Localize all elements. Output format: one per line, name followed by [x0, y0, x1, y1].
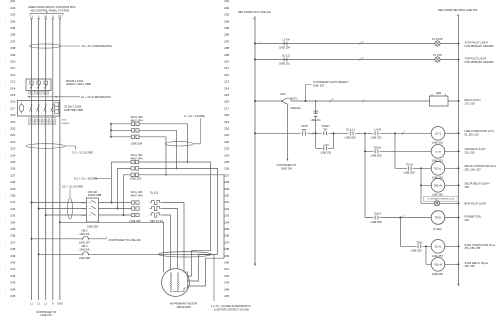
svg-text:232: 232	[10, 207, 15, 211]
svg-text:FOR PRIMARY HEATER: FOR PRIMARY HEATER	[465, 60, 494, 64]
svg-text:LINE 253: LINE 253	[371, 136, 382, 140]
svg-text:216: 216	[10, 100, 15, 104]
svg-text:TO PRIMARY AUTO SELECT: TO PRIMARY AUTO SELECT	[313, 80, 349, 84]
svg-text:221: 221	[224, 133, 229, 137]
pilot lamp PL TOP	[435, 57, 440, 62]
svg-text:BLK: BLK	[51, 123, 55, 125]
transformer cable leader	[193, 118, 200, 144]
svg-text:234: 234	[10, 220, 15, 224]
svg-text:15KW/100P: 15KW/100P	[176, 305, 191, 309]
svg-text:223: 223	[224, 147, 229, 151]
feeder source note	[29, 5, 76, 12]
svg-text:& MOTOR CONTACT GLAND: & MOTOR CONTACT GLAND	[214, 307, 249, 311]
svg-text:TDSL: TDSL	[416, 240, 423, 244]
svg-text:245: 245	[10, 294, 15, 298]
manual branch wire	[287, 105, 289, 159]
fuse F2b	[131, 167, 139, 170]
svg-text:LINE 254: LINE 254	[279, 45, 290, 49]
svg-text:218: 218	[10, 113, 15, 117]
svg-text:MANUAL: MANUAL	[291, 107, 302, 110]
pushbutton START	[324, 131, 327, 135]
rung 11 wire	[426, 263, 459, 265]
svg-text:259: 259	[465, 185, 470, 189]
svg-text:10 SEC: 10 SEC	[433, 227, 442, 231]
svg-text:240: 240	[10, 261, 15, 265]
svg-text:440V 1PH: 440V 1PH	[130, 156, 142, 160]
contact TDSL timed	[418, 244, 421, 248]
coil SQ+H	[431, 258, 445, 272]
tap wire yellow	[39, 208, 131, 210]
svg-text:220: 220	[224, 127, 229, 131]
breaker MCCB1 label	[66, 79, 91, 86]
wire number tick rung4	[402, 132, 404, 135]
svg-text:SC1N+1 100A: SC1N+1 100A	[64, 104, 81, 108]
svg-text:229: 229	[224, 187, 229, 191]
rung 7 wire	[421, 184, 459, 186]
fuse F2a	[131, 160, 139, 163]
svg-text:239: 239	[10, 254, 15, 258]
svg-text:LINE 259: LINE 259	[87, 224, 98, 228]
svg-text:PL TOP: PL TOP	[433, 54, 442, 57]
feeder continuation note	[36, 310, 56, 317]
svg-text:HV-PRIMARY MOTOR: HV-PRIMARY MOTOR	[170, 302, 197, 306]
svg-text:204: 204	[10, 19, 15, 23]
fuse F2c	[131, 173, 139, 176]
svg-text:L1Y/H: L1Y/H	[374, 127, 381, 131]
coil L1Y-H	[431, 145, 445, 159]
svg-text:TD+H: TD+H	[406, 162, 413, 166]
svg-text:MCCB-1 100A: MCCB-1 100A	[66, 79, 84, 83]
contact OL trip	[350, 131, 353, 135]
svg-text:LINE 257: LINE 257	[79, 241, 90, 245]
motor M1 body	[162, 269, 190, 297]
fuse group F3 label	[130, 190, 143, 197]
conductor L3	[45, 20, 47, 301]
node start junction	[315, 132, 317, 134]
svg-text:242: 242	[10, 274, 15, 278]
svg-text:CB-4: CB-4	[82, 244, 88, 248]
fuse group F2 output rails	[139, 162, 224, 286]
svg-text:208: 208	[224, 46, 229, 50]
svg-text:206: 206	[10, 33, 15, 37]
fuse F3a	[132, 201, 140, 204]
svg-text:211: 211	[10, 66, 15, 70]
svg-text:241: 241	[224, 267, 229, 271]
fuse group F2 left wires	[112, 162, 132, 215]
svg-text:SQ+H: SQ+H	[434, 262, 442, 266]
svg-text:244: 244	[224, 287, 229, 291]
svg-text:STAR CONTACTOR SC+L: STAR CONTACTOR SC+L	[465, 243, 496, 247]
svg-text:SC1L 400: SC1L 400	[131, 115, 143, 119]
rung 1 note	[465, 40, 494, 47]
svg-text:LINE 256: LINE 256	[345, 136, 356, 140]
svg-text:209: 209	[10, 53, 15, 57]
rung 7 note	[465, 181, 490, 188]
contact PL-stop circuit	[284, 42, 287, 46]
contactor KM-GR poles	[89, 200, 95, 216]
svg-text:226: 226	[10, 167, 15, 171]
contactor KM1 aux block	[55, 103, 59, 114]
svg-text:LINE 150: LINE 150	[40, 313, 52, 317]
svg-text:DL 250, 219: DL 250, 219	[465, 133, 480, 137]
svg-text:LINE 256: LINE 256	[432, 272, 443, 276]
motor M1 label	[170, 302, 197, 309]
svg-text:252, 253: 252, 253	[465, 264, 476, 268]
contact TD+H	[408, 166, 411, 170]
svg-text:CONTINUED TO LINE 232: CONTINUED TO LINE 232	[109, 238, 142, 242]
svg-text:219: 219	[10, 120, 15, 124]
svg-text:228: 228	[10, 180, 15, 184]
wire number tick rung2	[360, 58, 362, 61]
wire number tick rung4 stop	[312, 132, 314, 135]
aux cable leader 3	[69, 189, 71, 198]
breaker CB4 rung	[39, 253, 83, 255]
svg-text:LINE 251: LINE 251	[432, 159, 443, 163]
ground tag	[62, 120, 70, 126]
fuse F1b	[132, 129, 140, 132]
contact PL-top circuit	[284, 58, 287, 62]
rung 9 wire	[365, 217, 459, 219]
svg-text:229: 229	[10, 187, 15, 191]
svg-text:STOP: STOP	[301, 124, 308, 128]
motor cable marker	[159, 252, 212, 257]
contactor KM-GR outline	[87, 198, 99, 222]
svg-text:TDSL: TDSL	[434, 216, 442, 220]
svg-text:LINE 255: LINE 255	[432, 176, 443, 180]
svg-text:224: 224	[224, 153, 229, 157]
svg-text:215: 215	[10, 93, 15, 97]
rung 3 note	[465, 98, 481, 105]
contactor KM-GR wire colors	[81, 203, 86, 218]
svg-text:253, 255, 256: 253, 255, 256	[465, 246, 481, 250]
rung 4 wire	[255, 132, 431, 134]
svg-text:235: 235	[10, 227, 15, 231]
svg-text:240: 240	[224, 261, 229, 265]
svg-text:STAR RELAY SQ+H: STAR RELAY SQ+H	[465, 261, 489, 265]
svg-text:L1Y/H: L1Y/H	[282, 38, 289, 42]
svg-text:215: 215	[224, 93, 229, 97]
auto select leader	[306, 85, 312, 102]
svg-text:FOR PRIMARY HEATER: FOR PRIMARY HEATER	[465, 44, 494, 48]
svg-text:235: 235	[224, 227, 229, 231]
svg-text:5 C + 1C XCORE: 5 C + 1C XCORE	[62, 184, 83, 188]
contactor KM1 outline	[18, 101, 60, 117]
svg-text:237: 237	[224, 240, 229, 244]
svg-text:227: 227	[10, 173, 15, 177]
svg-text:207, 209: 207, 209	[465, 101, 476, 105]
motor cable leader	[213, 254, 215, 301]
tap wire blue	[46, 214, 131, 216]
svg-text:205: 205	[224, 26, 229, 30]
svg-text:220: 220	[10, 127, 15, 131]
feeder bracket	[30, 12, 63, 15]
svg-text:238: 238	[224, 247, 229, 251]
svg-text:203: 203	[224, 13, 229, 17]
svg-text:228: 228	[224, 180, 229, 184]
svg-text:1 a 7C + XCORE XLPE/SWA/PVC: 1 a 7C + XCORE XLPE/SWA/PVC	[211, 304, 251, 308]
run lamp tag box	[424, 196, 459, 201]
svg-text:SC+L: SC+L	[434, 244, 442, 248]
svg-text:230: 230	[224, 194, 229, 198]
relay ASR coil box	[430, 96, 449, 106]
fuse group F1 supply bus	[110, 124, 112, 137]
selector switch CR-L	[280, 92, 302, 110]
svg-text:5 C + 1C + XCORE: 5 C + 1C + XCORE	[74, 176, 98, 180]
coil DC+L	[431, 162, 445, 176]
svg-text:FEED FROM 400VAC JUNCTION BOX: FEED FROM 400VAC JUNCTION BOX	[29, 5, 76, 9]
contactor KM1 coil	[19, 104, 24, 111]
svg-text:DELTA RELAY DQ+H: DELTA RELAY DQ+H	[465, 181, 490, 185]
node rung9	[400, 217, 402, 219]
sub-main cable marker	[26, 144, 65, 149]
svg-text:240V 6A: 240V 6A	[80, 232, 90, 236]
svg-text:2 + 1C + XCORE: 2 + 1C + XCORE	[184, 114, 205, 118]
svg-text:222: 222	[10, 140, 15, 144]
svg-text:KM GR: KM GR	[88, 190, 97, 194]
svg-text:201: 201	[10, 0, 15, 3]
conductor bottom labels	[30, 302, 63, 305]
terminal labels AL1 AL2 AL3	[29, 91, 49, 95]
svg-text:208: 208	[10, 46, 15, 50]
breaker CB2 rung	[32, 238, 84, 240]
svg-text:226: 226	[224, 167, 229, 171]
motor M1 winding bracket	[171, 269, 188, 292]
svg-text:213: 213	[10, 80, 15, 84]
svg-text:243: 243	[10, 281, 15, 285]
svg-text:LINE CONTACTOR L2Y1,: LINE CONTACTOR L2Y1,	[465, 129, 495, 133]
svg-text:L2Y1: L2Y1	[435, 131, 442, 135]
contactor KM1 poles	[30, 104, 54, 112]
svg-text:233: 233	[10, 214, 15, 218]
rung 2 note	[465, 56, 494, 63]
svg-text:LINE 213: LINE 213	[311, 119, 322, 122]
contact L1-H holding	[324, 146, 327, 150]
contactor KM-GR label	[88, 190, 102, 197]
svg-text:221: 221	[10, 133, 15, 137]
svg-text:LINE 251: LINE 251	[279, 61, 290, 65]
svg-text:210: 210	[224, 60, 229, 64]
svg-text:BLU: BLU	[44, 123, 48, 125]
svg-text:206: 206	[224, 33, 229, 37]
rung 6 wire	[395, 167, 459, 169]
conductor L2	[38, 20, 40, 301]
svg-text:GND: GND	[57, 302, 63, 305]
rung 1 wire	[255, 43, 459, 45]
svg-text:230: 230	[10, 194, 15, 198]
svg-text:SUB TRIP, ABB: SUB TRIP, ABB	[64, 108, 83, 112]
svg-text:240V 6A: 240V 6A	[80, 248, 90, 252]
node rung4 b	[394, 132, 396, 134]
overload wires out	[162, 203, 184, 271]
svg-text:219: 219	[224, 120, 229, 124]
svg-text:DL (L1): DL (L1)	[150, 192, 158, 195]
fuse F1a	[132, 122, 140, 125]
rung 11 note	[465, 261, 489, 268]
coil SC+L	[431, 240, 445, 254]
rung 2 wire	[255, 59, 459, 61]
fuse group F1 label	[130, 115, 143, 122]
breaker CB4 labels	[79, 244, 90, 260]
svg-text:DL (L1-): DL (L1-)	[346, 128, 355, 131]
svg-text:242: 242	[224, 274, 229, 278]
svg-text:239: 239	[224, 254, 229, 258]
breaker CB4 wire to motor cable	[88, 253, 214, 255]
svg-text:ASR: ASR	[436, 91, 441, 95]
svg-text:236: 236	[10, 234, 15, 238]
wire F1b drop	[176, 130, 178, 168]
wire tag blocks	[29, 118, 56, 126]
rung 9 note	[465, 215, 483, 222]
breaker MCCB1 outline	[26, 79, 51, 91]
svg-text:244: 244	[10, 287, 15, 291]
svg-text:4C + 1C XLPE/SWA/PVC: 4C + 1C XLPE/SWA/PVC	[82, 44, 113, 48]
svg-text:LINE 251: LINE 251	[432, 141, 443, 145]
svg-text:SC1L 400: SC1L 400	[131, 153, 143, 157]
svg-text:DL (L1): DL (L1)	[282, 55, 290, 58]
wire number tick rung3	[330, 100, 332, 103]
svg-text:440V 1PH: 440V 1PH	[130, 118, 142, 122]
svg-text:BLU: BLU	[81, 215, 86, 217]
auto select note	[313, 80, 349, 88]
contact ASR branch	[315, 101, 317, 133]
svg-text:234: 234	[224, 220, 229, 224]
svg-text:223: 223	[10, 147, 15, 151]
breaker CB4 symbol	[83, 252, 88, 255]
svg-text:AL + 3C XLPE/SWA/PVC: AL + 3C XLPE/SWA/PVC	[81, 95, 111, 99]
svg-text:DQ+4: DQ+4	[374, 212, 381, 216]
delta relay branch wire	[420, 168, 422, 203]
svg-text:N: N	[52, 302, 54, 305]
svg-text:222: 222	[224, 140, 229, 144]
overload OL1 elements	[150, 200, 162, 217]
svg-text:LINE 234: LINE 234	[281, 167, 292, 171]
svg-text:CB-2: CB-2	[82, 229, 88, 233]
svg-text:201: 201	[224, 0, 229, 3]
sub-main cable leader	[65, 146, 76, 150]
wire F1a drop	[187, 124, 189, 162]
svg-text:203: 203	[10, 13, 15, 17]
breaker CB2 labels	[79, 229, 90, 245]
transformer cable marker	[165, 142, 193, 146]
conductor N	[52, 20, 54, 301]
svg-text:STOP PILOT LIGHT: STOP PILOT LIGHT	[465, 40, 489, 44]
star relay branch wire	[425, 246, 427, 264]
svg-text:209: 209	[224, 53, 229, 57]
svg-text:LINE 258: LINE 258	[371, 220, 382, 224]
rung 4 note	[465, 129, 495, 136]
svg-text:231: 231	[10, 200, 15, 204]
tap wire red	[32, 202, 132, 204]
rung 6 note	[465, 164, 498, 171]
right sheet line-number column	[224, 0, 229, 298]
svg-text:202: 202	[10, 6, 15, 10]
rung 5 note	[465, 148, 486, 154]
svg-text:LINE 250: LINE 250	[371, 154, 382, 158]
motor cable note	[211, 304, 251, 311]
contact DQ+4	[375, 216, 378, 220]
svg-text:440VAC, 20KA, ABB: 440VAC, 20KA, ABB	[66, 82, 91, 86]
svg-text:L1/H: L1/H	[323, 144, 328, 147]
svg-text:L1Y/H: L1Y/H	[435, 151, 441, 153]
fuse F3c	[132, 213, 140, 216]
breaker CB2 symbol	[83, 236, 88, 239]
svg-text:243: 243	[224, 281, 229, 285]
svg-text:DC+L: DC+L	[434, 166, 442, 170]
vertical cable marker	[68, 198, 73, 219]
svg-text:42VAC ABB: 42VAC ABB	[88, 194, 102, 197]
svg-text:202: 202	[224, 6, 229, 10]
fuse F3b	[132, 207, 140, 210]
vertical feeder wire	[364, 133, 366, 217]
vertical branch wire	[394, 133, 396, 168]
rung 10 note	[465, 243, 496, 250]
svg-text:245: 245	[224, 294, 229, 298]
svg-text:227: 227	[224, 173, 229, 177]
svg-text:DELTA CONTACTOR DC+L: DELTA CONTACTOR DC+L	[465, 164, 498, 168]
svg-text:RED: RED	[29, 123, 34, 125]
conductor L1	[31, 20, 33, 301]
svg-text:207: 207	[224, 39, 229, 43]
contactor KM1 label	[64, 104, 83, 111]
rung 3 wire	[255, 98, 459, 102]
node rung4 a	[364, 132, 366, 134]
svg-text:RED: RED	[81, 203, 86, 205]
svg-text:204: 204	[465, 218, 470, 222]
svg-text:255, 2A6, 257: 255, 2A6, 257	[465, 168, 482, 172]
svg-text:LINE 204: LINE 204	[131, 142, 143, 146]
svg-text:218: 218	[224, 113, 229, 117]
svg-text:217: 217	[224, 106, 229, 110]
svg-text:224: 224	[10, 153, 15, 157]
pilot lamp RUN	[434, 201, 439, 206]
svg-text:225: 225	[224, 160, 229, 164]
coil L2Y1	[431, 127, 445, 141]
incoming cable marker	[30, 44, 61, 48]
contact DQ+H interlock	[375, 149, 378, 153]
svg-text:TOP PILOT LIGHT: TOP PILOT LIGHT	[465, 56, 487, 60]
svg-text:CONTINUED TO: CONTINUED TO	[277, 163, 297, 167]
svg-text:212: 212	[10, 73, 15, 77]
manual continuation note	[277, 163, 297, 171]
left sheet line-number column	[10, 0, 15, 298]
fuse group F2 label	[130, 153, 143, 160]
contact L1Y/H seal	[375, 131, 378, 135]
svg-text:START: START	[322, 124, 331, 128]
timer branch wire	[400, 218, 402, 247]
rung 5 wire	[365, 150, 459, 152]
svg-text:AUTO: AUTO	[291, 97, 298, 100]
svg-text:236: 236	[224, 234, 229, 238]
rung 8 wire	[421, 202, 459, 204]
wire F1c drop	[165, 137, 167, 175]
svg-text:225: 225	[10, 160, 15, 164]
fuse group F1 wires out	[139, 124, 188, 137]
right control rail	[458, 15, 460, 286]
breaker MCCB1 poles	[30, 81, 48, 89]
svg-text:LINE RELAY (L1)/H: LINE RELAY (L1)/H	[465, 148, 486, 151]
cable dimension arrow	[28, 96, 59, 98]
svg-text:POWER TDSL: POWER TDSL	[465, 215, 483, 219]
timer coil TDSL	[431, 211, 445, 225]
svg-text:RELAY AUTO: RELAY AUTO	[465, 98, 481, 102]
svg-text:LINE 253: LINE 253	[321, 152, 332, 155]
svg-text:5 C + 1C XCORE: 5 C + 1C XCORE	[72, 150, 93, 154]
svg-text:212: 212	[224, 73, 229, 77]
svg-text:LINE 258: LINE 258	[79, 256, 90, 260]
svg-text:GREEN: GREEN	[62, 123, 70, 125]
node rung6	[420, 167, 422, 169]
incoming cable leader	[61, 45, 81, 47]
